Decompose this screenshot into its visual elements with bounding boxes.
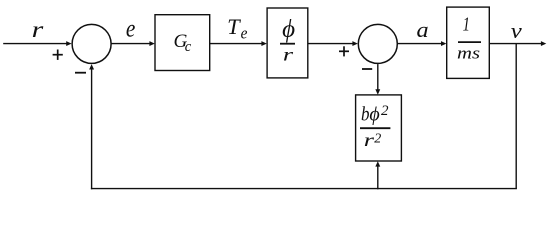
minus sign at junction 1 [75,72,86,74]
wire tap from v down [515,44,517,189]
wire a : junction 2 to 1/ms [398,43,442,45]
arrowhead into phi/r [261,41,266,46]
arrowhead up into junction 1 [89,64,94,69]
arrowhead into 1/ms [441,41,446,46]
block phi/r [267,8,308,78]
svg-text:ϕ: ϕ [369,103,379,125]
wire Te : Gc to phi/r [210,43,263,45]
plus sign at junction 2 [339,50,349,52]
svg-text:r: r [32,16,44,42]
block Gc [155,15,210,71]
svg-text:r: r [364,130,375,150]
block b.phi2/r2 [356,95,402,161]
arrowhead up into b.phi2/r2 block bottom [375,161,380,166]
svg-text:e: e [126,15,135,43]
svg-text:a: a [416,18,428,43]
arrowhead into Gc [149,41,154,46]
svg-text:2: 2 [381,103,389,119]
summing junction 1 [72,24,111,63]
block 1/ms [447,7,490,78]
arrowhead output [541,41,546,46]
fraction bar b.phi2/r2 [360,127,390,129]
wire output v [489,43,541,45]
svg-text:b: b [361,103,370,126]
wire phi/r to summing junction 2 [308,43,353,45]
svg-text:r: r [283,44,293,64]
svg-text:1: 1 [463,14,470,35]
summing junction 2 [358,24,397,63]
arrowhead into summing junction 1 [66,41,71,46]
wire e : junction 1 to Gc [111,43,150,45]
wire feedback bottom [91,188,517,190]
svg-text:ϕ: ϕ [282,16,295,43]
fraction bar 1/ms [458,41,481,43]
plus sign at junction 1 [53,54,63,56]
minus sign at junction 2 [362,68,372,70]
wire riser from bottom feedback into b.phi2/r2 [377,165,379,189]
arrowhead down into b.phi2/r2 block top [375,89,380,94]
wire junction 2 down to b.phi2/r2 block [377,64,379,91]
arrowhead into summing junction 2 [352,41,357,46]
svg-text:2: 2 [374,132,381,147]
svg-text:T: T [227,14,241,39]
wire input r [3,43,67,45]
svg-text:v: v [511,19,523,44]
wire feedback riser to junction 1 [91,68,93,189]
svg-text:ms: ms [457,44,480,63]
svg-text:e: e [241,25,248,43]
svg-text:c: c [185,39,192,55]
fraction bar phi/r [280,43,295,45]
